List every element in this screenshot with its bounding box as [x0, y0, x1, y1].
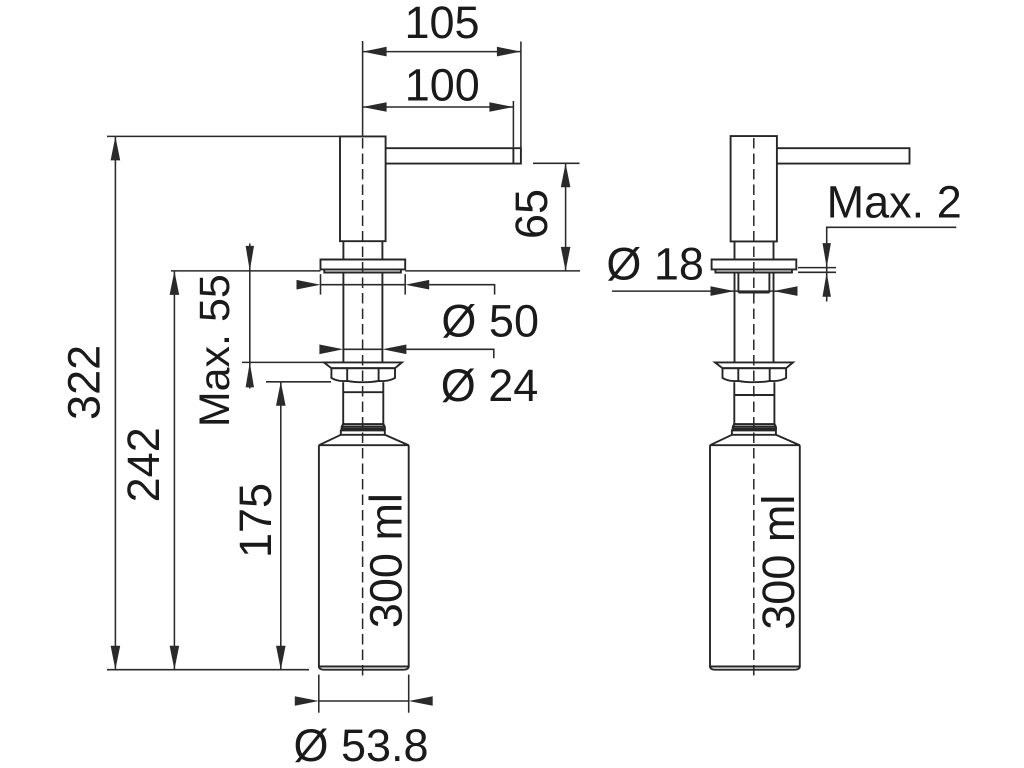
- dimension Ø53.8: extension lines: [319, 675, 409, 713]
- shaft Ø18 with counterbore step (right view): [735, 273, 774, 363]
- dimension Ø53.8: dimension line with arrows: [295, 696, 433, 706]
- dimension 175: dimension line with arrows: [276, 382, 286, 670]
- bottle shoulder cone (left view): [319, 435, 409, 445]
- spout (right view): [777, 148, 910, 163]
- neck ring (right view): [732, 430, 776, 434]
- neck ring (left view): [341, 430, 385, 434]
- svg-text:Max. 55: Max. 55: [191, 274, 239, 427]
- svg-text:300 ml: 300 ml: [361, 493, 412, 628]
- svg-text:300 ml: 300 ml: [753, 495, 804, 630]
- mounting flange Ø50 (left view): [321, 260, 406, 273]
- svg-text:Ø 24: Ø 24: [441, 360, 539, 411]
- dimension 100: extension line: [512, 101, 514, 149]
- dimension Ø18: dimension line with arrows: [612, 286, 798, 296]
- ribbed collar (left view): [342, 424, 385, 430]
- dimension 105: dimension line with arrows: [363, 47, 521, 57]
- dimension 322: top extension line: [107, 135, 340, 137]
- spout (left view): [386, 148, 521, 163]
- dimension Ø24: dimension line, arrows and leader: [319, 345, 493, 359]
- svg-text:100: 100: [405, 60, 480, 111]
- dimension Ø50: witness ticks: [321, 274, 406, 295]
- dimension Max.55: dimension line with outside arrows: [246, 244, 254, 389]
- threaded shaft Ø24 (left view): [343, 273, 382, 363]
- bottle shoulder cone (right view): [710, 435, 800, 445]
- washer plate (right view): [715, 362, 793, 368]
- dimension 65: dimension line with arrows: [561, 163, 571, 271]
- centre line (right view): [753, 138, 755, 679]
- mounting flange (right view): [712, 260, 797, 273]
- svg-text:175: 175: [230, 483, 281, 558]
- dimension 105: extension lines: [363, 41, 521, 149]
- pump head (left view): [340, 136, 386, 241]
- flange seat reference line: [171, 270, 580, 272]
- dimension 322: dimension line with arrows: [111, 136, 121, 669]
- hex nut (left view): [331, 368, 395, 382]
- ribbed collar (right view): [733, 424, 776, 430]
- svg-text:105: 105: [404, 0, 479, 48]
- bottle body 300 ml (left view): [319, 445, 409, 670]
- svg-text:Ø 18: Ø 18: [606, 239, 704, 290]
- svg-text:242: 242: [118, 427, 169, 502]
- dimension 175: top extension line: [266, 381, 331, 383]
- neck between head and flange (right view): [735, 241, 774, 259]
- dimension 100: dimension line with arrows: [363, 102, 514, 112]
- washer plate (left view): [324, 362, 402, 368]
- dimension Ø50: dimension line, arrows and leader: [297, 280, 495, 295]
- hex nut (right view): [723, 368, 787, 382]
- svg-text:Ø 50: Ø 50: [441, 295, 539, 346]
- dimension 65: extension line: [533, 162, 580, 164]
- svg-text:65: 65: [506, 189, 557, 239]
- bottle body 300 ml (right view): [710, 445, 800, 670]
- lower cylinder with seam (right view): [734, 382, 774, 424]
- dimension Max.2: leader and dimension line with outside arrows: [798, 227, 956, 301]
- svg-text:322: 322: [59, 345, 110, 420]
- pump head (right view): [731, 136, 777, 241]
- centre line (left view): [362, 138, 364, 679]
- dimension Max.55: bottom extension line: [242, 361, 324, 363]
- svg-text:Ø 53.8: Ø 53.8: [293, 720, 428, 768]
- lower cylinder with seam (left view): [343, 382, 383, 424]
- dimension 322: bottom extension line: [107, 669, 309, 671]
- dimension 242: dimension line with arrows: [170, 271, 180, 670]
- neck between head and flange (left view): [343, 241, 382, 259]
- svg-text:Max. 2: Max. 2: [827, 177, 962, 228]
